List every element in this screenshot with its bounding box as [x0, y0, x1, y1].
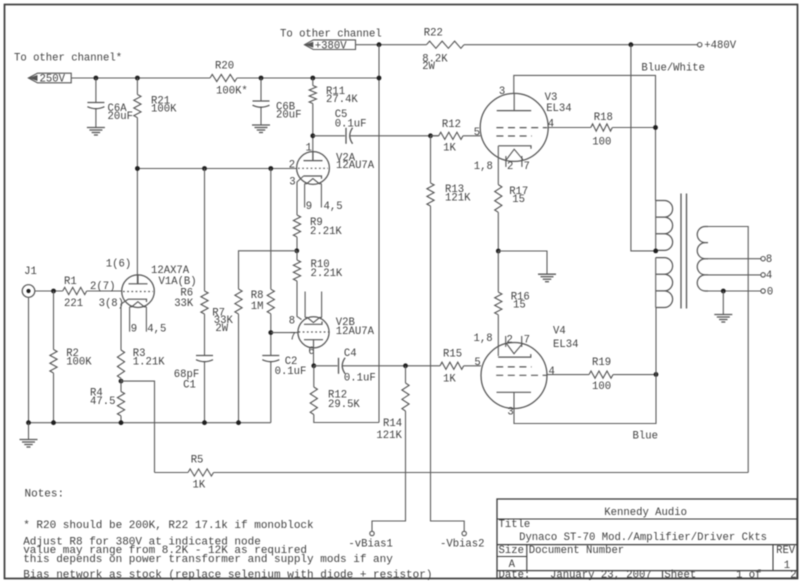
label R3	[133, 348, 165, 369]
resistor R1	[63, 287, 87, 294]
wire V2B grid	[271, 332, 299, 334]
svg-text:4: 4	[549, 366, 555, 378]
svg-text:7: 7	[524, 161, 530, 173]
docnum label	[529, 545, 624, 557]
wire R7 to ground bus	[238, 314, 240, 423]
resistor R22	[427, 41, 465, 48]
title label	[499, 519, 531, 531]
svg-text:1 of: 1 of	[736, 570, 761, 582]
svg-text:0.1uF: 0.1uF	[275, 366, 307, 378]
note line 2	[23, 537, 261, 549]
label C1	[174, 369, 199, 392]
svg-text:2: 2	[507, 161, 513, 173]
label -Vbias2	[440, 538, 485, 550]
wire R8 top lead	[270, 169, 272, 290]
transformer primary bottom winding	[656, 258, 673, 308]
node J1/R2	[51, 289, 56, 294]
svg-text:C4: C4	[344, 348, 357, 360]
resistor R2	[50, 350, 57, 374]
resistor R19	[589, 371, 613, 378]
resistor R17	[495, 185, 502, 213]
label 4	[766, 270, 772, 282]
power flag +380V	[305, 40, 356, 52]
resistor R18	[591, 124, 613, 131]
svg-text:1M: 1M	[251, 301, 264, 313]
wire 0ohm tap	[708, 290, 761, 292]
node C6B tap	[259, 76, 264, 81]
resistor R13	[427, 183, 434, 206]
svg-text:V1A(B): V1A(B)	[159, 276, 197, 288]
node R9/R10/R7	[294, 248, 299, 253]
label R8	[251, 290, 264, 313]
sheet label	[664, 570, 696, 582]
svg-text:9: 9	[306, 201, 312, 213]
wire R11 top lead	[312, 78, 314, 86]
wire plate bus	[137, 168, 296, 170]
wire 250V rail	[71, 77, 379, 79]
wire C4 to R15	[343, 365, 440, 367]
wire ground bus	[29, 422, 271, 424]
svg-text:Notes:: Notes:	[25, 489, 65, 501]
svg-text:12AU7A: 12AU7A	[336, 326, 375, 338]
label R11	[326, 86, 358, 106]
tube V2A	[297, 152, 330, 185]
resistor R20	[210, 74, 237, 81]
wire V3 plate up and over	[514, 75, 656, 200]
label R6	[174, 287, 194, 309]
pin label 2(7)	[90, 281, 115, 293]
date label	[499, 570, 531, 582]
svg-text:4: 4	[766, 270, 772, 282]
svg-text:4,5: 4,5	[147, 324, 166, 336]
tube V2B	[298, 317, 329, 348]
svg-text:R5: R5	[191, 455, 204, 467]
svg-text:2.21K: 2.21K	[310, 226, 342, 238]
svg-text:2.21K: 2.21K	[311, 268, 343, 280]
wire R6 top lead	[204, 169, 206, 292]
label R18	[592, 112, 613, 149]
svg-text:C1: C1	[183, 380, 196, 392]
wire R10 to V2B cathode	[297, 281, 302, 320]
wire secondary ground lead	[722, 291, 724, 314]
svg-text:1: 1	[784, 560, 790, 572]
resistor R15	[440, 362, 464, 369]
label -vBias1	[348, 538, 393, 550]
heater stub 4,5 V1A	[145, 307, 147, 332]
svg-text:EL34: EL34	[546, 103, 571, 115]
label R19	[592, 357, 611, 393]
pin 5 label V4	[474, 357, 480, 369]
svg-text:8: 8	[766, 254, 772, 266]
rev value	[784, 560, 790, 572]
label C6A	[108, 103, 133, 123]
size value	[509, 559, 516, 571]
wire C6B leads	[260, 78, 262, 125]
svg-text:Kennedy Audio: Kennedy Audio	[604, 507, 687, 519]
wire R12 to V3 grid	[463, 135, 480, 137]
wire R16 top lead	[497, 251, 499, 292]
label R17	[509, 186, 528, 206]
svg-text:121K: 121K	[376, 430, 402, 442]
size label	[499, 545, 524, 557]
ground below C6B	[252, 125, 270, 133]
pin 6 label V2B	[308, 346, 314, 358]
node B+ Blue/White tap	[629, 42, 634, 47]
capacitor C5	[346, 128, 353, 144]
svg-text:20uF: 20uF	[108, 111, 133, 123]
label V2A	[336, 152, 375, 172]
node bus C1	[202, 420, 207, 425]
wire R18 to plate line	[612, 127, 655, 129]
terminal 8	[761, 257, 765, 261]
svg-text:100K: 100K	[151, 104, 177, 116]
wire R8 to C2	[270, 314, 272, 356]
svg-text:1K: 1K	[443, 374, 456, 386]
svg-text:3(8): 3(8)	[99, 298, 124, 310]
label R21	[151, 96, 177, 116]
node bus R6	[202, 166, 207, 171]
wire C5 to R12	[350, 135, 438, 137]
label C6B	[276, 102, 301, 122]
ground main bus	[20, 440, 38, 448]
svg-text:2: 2	[790, 570, 796, 582]
pin labels 1,8 2 7 V3	[474, 161, 530, 173]
svg-text:R18: R18	[594, 112, 613, 124]
date value	[550, 570, 652, 582]
wire R21 top lead	[136, 78, 138, 95]
wire R19 to output node	[613, 374, 656, 376]
label R16	[511, 292, 530, 312]
ground secondary	[714, 315, 732, 323]
pin 4 label V4	[549, 366, 555, 378]
label R20	[215, 61, 248, 98]
label Notes:	[25, 489, 65, 501]
wire R15 to V4 grid	[464, 365, 481, 367]
title company	[604, 507, 687, 519]
pin label 4,5 V2A	[324, 201, 343, 213]
capacitor C4	[339, 358, 346, 374]
label 8	[766, 254, 772, 266]
pin 3 label V4	[507, 407, 513, 419]
label R12 29.5K	[328, 390, 360, 411]
svg-text:100: 100	[592, 381, 611, 393]
label R2	[66, 348, 92, 369]
node V2B plate/C4/R12	[311, 363, 316, 368]
node bus R8	[268, 166, 273, 171]
node bus R4	[119, 420, 124, 425]
svg-text:REV: REV	[776, 545, 796, 557]
pin 7 label V2B	[290, 332, 296, 344]
svg-text:R12: R12	[442, 119, 461, 131]
pin 3 label V3	[499, 86, 505, 98]
resistor R9	[293, 215, 300, 237]
svg-text:1K: 1K	[443, 143, 456, 155]
wire BlueWhite center tap	[631, 45, 654, 251]
wire R14 to -vBias1	[372, 411, 406, 531]
label R14	[376, 418, 402, 442]
label: To other channel (left)	[14, 52, 122, 64]
wire V2B plate lead	[313, 340, 315, 366]
svg-text:7: 7	[524, 335, 530, 347]
node R11 tap	[310, 76, 315, 81]
capacitor C6B	[253, 101, 270, 107]
label C4	[344, 348, 376, 384]
wire V3 cathode lead	[497, 146, 499, 185]
wire C6A leads	[95, 78, 97, 128]
label C5	[335, 109, 367, 131]
node +380V rail tee	[377, 76, 382, 81]
wire R12 junction to V3 pin5	[431, 135, 439, 137]
pin 1 label V2A	[306, 142, 312, 154]
svg-text:R20: R20	[215, 61, 234, 73]
svg-text:4,5: 4,5	[324, 201, 343, 213]
ground cathode	[538, 274, 556, 282]
node bus R7	[236, 420, 241, 425]
svg-text:R22: R22	[424, 28, 443, 40]
wire R12b top lead	[313, 366, 315, 387]
wire +380V row	[356, 44, 698, 46]
wire +380V vertical feed	[378, 45, 380, 423]
svg-text:33K: 33K	[174, 298, 194, 310]
wire R10 top lead	[296, 251, 298, 260]
wire C1 to ground bus	[204, 362, 206, 423]
node secondary ground tap	[721, 289, 726, 294]
svg-text:+380V: +380V	[315, 40, 347, 52]
svg-text:R15: R15	[443, 349, 462, 361]
wire R1 to V1A grid	[87, 290, 122, 292]
node bus R21	[135, 166, 140, 171]
label Blue/White	[641, 63, 705, 75]
wire R13 to -Vbias2	[431, 206, 465, 531]
svg-text:0.1uF: 0.1uF	[335, 119, 367, 131]
svg-text:1,8: 1,8	[474, 333, 493, 345]
wire R9 to node	[296, 237, 298, 251]
node primary center tap	[653, 249, 658, 254]
wire R17 to node	[497, 212, 499, 251]
svg-text:-vBias1: -vBias1	[348, 538, 393, 550]
node bus J1	[26, 420, 31, 425]
svg-text:2: 2	[507, 335, 513, 347]
wire R7 branch	[239, 251, 297, 289]
label C2	[275, 356, 307, 378]
wire 16ohm tap feedback	[708, 227, 748, 473]
sheet count	[790, 570, 796, 582]
wire R4 to ground bus	[120, 416, 122, 423]
wire J1 down	[28, 297, 30, 422]
svg-text:Size: Size	[499, 545, 524, 557]
wire V4 pin4 to R19	[547, 374, 589, 376]
svg-text:3: 3	[289, 177, 295, 189]
terminal -Vbias2	[462, 531, 466, 535]
label J1	[24, 266, 37, 278]
pin label 4,5 V1A	[147, 324, 166, 336]
pin label 3(8)	[99, 298, 124, 310]
svg-text:1,8: 1,8	[474, 161, 493, 173]
wire ground branch	[498, 251, 547, 274]
svg-text:3: 3	[507, 407, 513, 419]
label V2B	[336, 317, 375, 338]
svg-text:15: 15	[512, 194, 525, 206]
svg-text:1(6): 1(6)	[106, 258, 131, 270]
svg-text:100K: 100K	[66, 357, 92, 369]
node V2B grid tap	[268, 330, 273, 335]
heater stub 4,5 V2A	[320, 184, 322, 208]
svg-text:47.5: 47.5	[90, 396, 115, 408]
svg-text:15: 15	[513, 299, 526, 311]
resistor R11	[309, 86, 316, 104]
svg-text:1: 1	[306, 142, 312, 154]
wire 4ohm tap	[708, 274, 761, 276]
wire V4 plate down and over	[514, 308, 656, 424]
heater stub 9 V1A	[129, 307, 131, 332]
label R10	[311, 259, 343, 280]
resistor R21	[134, 95, 141, 118]
wire feedback from R3/R4	[121, 381, 155, 472]
svg-text:2: 2	[289, 160, 295, 172]
label R15	[443, 349, 462, 386]
wire R2 leads	[53, 291, 55, 423]
wire R12b to +380 feed	[314, 415, 379, 423]
note line 4	[23, 554, 393, 566]
note line 5	[23, 570, 432, 582]
transformer primary top winding	[656, 201, 673, 251]
svg-text:J1: J1	[24, 266, 37, 278]
tube V3	[480, 93, 548, 166]
wire R14 top lead	[405, 366, 407, 383]
svg-text:100: 100	[592, 137, 611, 149]
label V1A	[151, 265, 197, 288]
svg-text:8: 8	[289, 315, 295, 327]
pin 3 label V2A	[289, 177, 295, 189]
capacitor C1	[196, 356, 213, 362]
label V4	[553, 326, 578, 351]
svg-text:+480V: +480V	[704, 40, 736, 52]
ground below C6A	[87, 128, 105, 136]
label R1	[64, 276, 83, 310]
svg-text:3: 3	[499, 86, 505, 98]
label R22	[422, 28, 448, 74]
svg-text:1.21K: 1.21K	[133, 357, 165, 369]
label 0	[767, 286, 773, 298]
svg-text:250V: 250V	[40, 74, 66, 86]
pin 4 label V3	[548, 119, 554, 131]
pin 8 label V2B	[289, 315, 295, 327]
svg-text:2W: 2W	[215, 323, 228, 335]
svg-text:27.4K: 27.4K	[326, 94, 358, 106]
wire R13 top lead	[430, 136, 432, 183]
heater stub left V2B	[304, 292, 306, 318]
svg-text:Dynaco ST-70 Mod./Amplifier/Dr: Dynaco ST-70 Mod./Amplifier/Driver Ckts	[519, 532, 767, 544]
node R3/R4/feedback	[119, 379, 124, 384]
label Blue	[633, 430, 658, 442]
svg-text:Sheet: Sheet	[664, 570, 696, 582]
node C6A tap	[94, 76, 99, 81]
label V3	[545, 92, 572, 115]
svg-text:* R20 should be 200K, R22 17.1: * R20 should be 200K, R22 17.1k if monob…	[23, 520, 314, 532]
svg-text:Bias network as stock (replace: Bias network as stock (replace selenium …	[23, 570, 432, 582]
pin 5 label V3	[474, 127, 480, 139]
label R9	[310, 217, 342, 238]
capacitor C6A	[87, 103, 104, 109]
resistor R12 29.5K	[310, 387, 317, 415]
svg-text:5: 5	[474, 127, 480, 139]
transformer secondary winding	[697, 227, 708, 291]
resistor R10	[293, 260, 300, 281]
wire V2A cathode lead	[297, 176, 304, 215]
label R4	[90, 388, 115, 408]
svg-text:-Vbias2: -Vbias2	[440, 538, 485, 550]
terminal 4	[761, 273, 765, 277]
terminal -vBias1	[370, 531, 374, 535]
resistor R8	[267, 289, 274, 314]
svg-text:29.5K: 29.5K	[328, 399, 360, 411]
svg-text:EL34: EL34	[553, 339, 578, 351]
power flag 250V	[28, 73, 71, 85]
wire C2 to ground bus	[270, 362, 272, 423]
wire R16 to V4 cathode	[497, 315, 499, 356]
pin labels 1,8 2 7 V4	[474, 333, 530, 346]
node R19/primary	[654, 372, 659, 377]
node cathode/ground	[496, 249, 501, 254]
svg-text:To other channel*: To other channel*	[14, 52, 122, 64]
terminal +480V	[698, 43, 702, 47]
svg-text:221: 221	[64, 298, 83, 310]
svg-text:To other channel: To other channel	[280, 29, 382, 41]
label R12 1K	[442, 119, 461, 155]
svg-text:2(7): 2(7)	[90, 281, 115, 293]
resistor R3	[117, 350, 124, 378]
node +380V tee	[377, 42, 382, 47]
label R5	[191, 455, 206, 492]
svg-text:20uF: 20uF	[276, 110, 301, 122]
label +480V	[704, 40, 736, 52]
resistor R14	[402, 383, 409, 411]
resistor R4	[117, 392, 124, 416]
svg-text:V4: V4	[553, 326, 566, 338]
label R7	[212, 307, 233, 334]
wire J1 to R1	[35, 290, 63, 292]
heater stub 9 V2A	[304, 184, 306, 208]
pin label 9 V1A	[131, 324, 137, 336]
svg-text:7: 7	[290, 332, 296, 344]
svg-text:this depends on power transfor: this depends on power transformer and su…	[23, 554, 393, 566]
node R18/plate	[653, 125, 658, 130]
wire R11 to V2A plate	[312, 104, 314, 161]
svg-text:Document Number: Document Number	[529, 545, 624, 557]
heater stub right V2B	[321, 292, 323, 318]
svg-text:R1: R1	[64, 276, 77, 288]
wire V1A cathode lead	[121, 299, 129, 350]
wire R6 to C1	[204, 314, 206, 356]
resistor R7	[235, 289, 242, 314]
svg-text:100K*: 100K*	[216, 86, 248, 98]
sheet value	[736, 570, 761, 582]
label: To other channel (top)	[280, 29, 382, 41]
svg-text:Date:: Date:	[499, 570, 531, 582]
wire V3 pin4 to R18	[548, 127, 591, 129]
svg-text:121K: 121K	[445, 193, 471, 205]
transformer core	[681, 194, 687, 309]
label R13	[445, 184, 471, 204]
node R21 tap	[135, 76, 140, 81]
title text	[519, 532, 767, 544]
svg-text:0: 0	[767, 286, 773, 298]
resistor R12 1K	[439, 132, 463, 139]
terminal 0	[761, 289, 765, 293]
wire C5 left lead	[313, 135, 345, 137]
svg-text:R19: R19	[592, 357, 611, 369]
note line 3	[23, 545, 307, 557]
